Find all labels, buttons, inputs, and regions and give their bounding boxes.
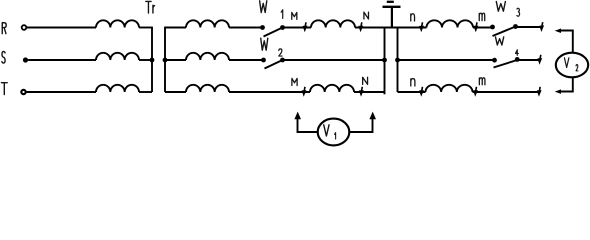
label S [2,52,5,64]
wire W3 to R row end [516,26,541,28]
label N T row [363,77,368,84]
label subscript 2 of W2 [279,49,282,56]
label W2 [261,38,268,50]
wire N to left central bus T row [354,91,385,93]
wire V1 left lead [298,119,318,133]
label subscript 2 of V2 [576,65,578,71]
wire T terminal to primary coil [26,91,96,93]
wire S terminal to primary coil [28,59,96,61]
junction dot secondary bus S row [163,58,168,63]
wire V2 bottom lead [560,77,573,91]
wire R terminal to primary coil [26,27,96,29]
inductor secondary R row [186,20,229,27]
label subscript 1 of V1 [335,133,336,139]
wire right central bus to switch W4 S row [398,59,495,61]
arrow V2 bottom probe [555,89,561,94]
inductor secondary S row [186,53,229,60]
wire primary star bus [151,27,153,92]
switch W3 [490,24,518,36]
terminal S [23,57,28,62]
arrow V2 top probe [555,29,561,34]
label subscript 4 of W4 [516,50,519,55]
tap mark N T row [359,87,364,97]
switch W4 [492,57,519,68]
label W1 [260,1,267,13]
wire secondary star bus [164,27,166,92]
wire right central bus to coil n T row [398,91,426,93]
inductor primary R row [96,20,139,27]
label subscript 1 of W1 [281,10,283,19]
wire m to T row end [473,91,539,93]
label m T row [479,78,485,85]
wire secondary coil T row to load [229,91,310,93]
terminal R [22,25,27,30]
voltmeter V2 [556,53,588,78]
label T [1,83,7,95]
wire secondary coil to switch W1 [229,27,263,29]
label Tr r [153,5,155,13]
label V of V2 [564,58,569,68]
inductor secondary T row [186,85,229,92]
label W4 [495,37,503,45]
label m R row [479,13,484,20]
wire secondary bus to coil R row [165,27,186,29]
wire R coil to primary bus [139,27,152,29]
wire N to central bus R row [355,27,427,29]
label N R row [364,12,369,19]
wire V1 right lead [349,119,372,133]
junction dot left central bus S row [382,58,387,63]
arrow V1 right probe [369,112,376,120]
tap mark end R row [539,22,544,32]
wire secondary coil to switch W2 [229,59,264,61]
junction dot right central bus S row [395,58,400,63]
wire V2 top lead [560,31,573,53]
wire right central bus to coil n R row [398,27,427,29]
wire secondary bus to coil S row [165,59,186,61]
label W3 [496,2,505,12]
tap mark M T row [302,87,307,97]
label subscript 3 of W3 [517,8,520,16]
tap mark m T row [473,87,478,97]
ground [383,2,401,28]
wire W2 to left central bus S row [283,59,385,61]
tap mark end T row [537,87,542,97]
wire right central star bus [397,27,399,92]
inductor load n-m R row [427,20,474,27]
wire W1 to load coil R row [283,27,312,29]
switch W1 [260,25,285,36]
junction dot primary bus S row [150,58,155,63]
label n T row [411,79,415,86]
terminal T [21,90,25,94]
label n R row [411,14,415,21]
tap mark N R row [358,22,363,32]
wire left central star bus [384,27,386,95]
wire T coil to primary bus [139,91,152,93]
wire secondary bus to coil T row [165,91,186,93]
arrow V1 left probe [294,112,301,120]
tap mark m R row [474,22,479,32]
inductor load M-N T row [310,85,354,92]
label M T row [292,78,297,85]
tap mark n R row [419,22,424,32]
wire m to switch W3 [473,27,493,29]
tap mark M R row [303,22,308,32]
label V of V1 [324,125,329,136]
switch W2 [261,58,285,69]
wire W4 to S row end [517,59,539,61]
tap mark n T row [419,87,424,97]
inductor primary S row [96,53,139,60]
tap mark end S row [537,55,542,65]
wire S coil to primary bus [139,59,152,61]
inductor load M-N R row [311,20,355,27]
voltmeter V1 [318,119,350,146]
label R [2,23,6,34]
label Tr T [146,1,151,13]
inductor load n-m T row [426,85,473,92]
label M R row [292,12,297,19]
inductor primary T row [96,85,139,92]
